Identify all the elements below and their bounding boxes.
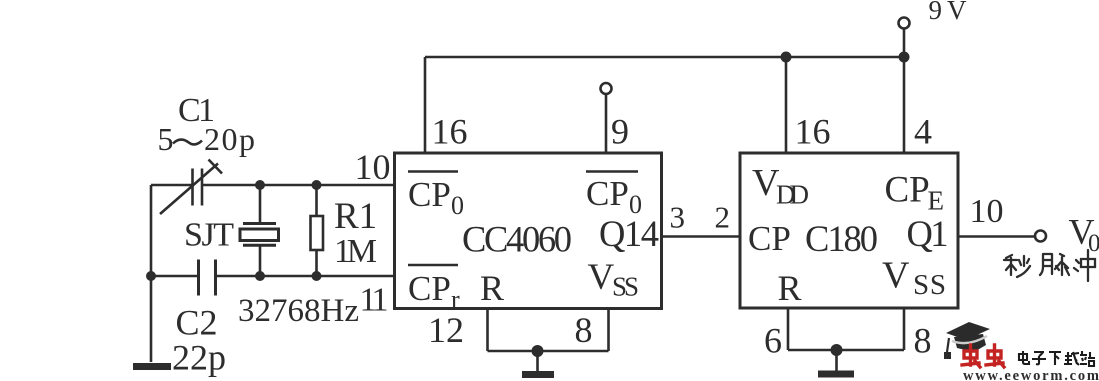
ground (C180) — [818, 350, 854, 374]
char 冲 — [1074, 250, 1095, 281]
IC U1 CC4060 box — [395, 153, 662, 309]
capacitor C1 trimmer arrow — [160, 164, 218, 215]
junction dot C180 ground — [831, 344, 843, 356]
wire 9V stem — [903, 29, 906, 57]
resistor R1 — [311, 185, 324, 276]
ground (CC4060) — [522, 351, 554, 375]
ground (left) — [133, 363, 171, 370]
junction dot top rail / R1 — [312, 180, 322, 190]
svg-text:6: 6 — [764, 321, 782, 361]
crystal SJT — [240, 185, 279, 276]
logo graduation cap board — [946, 322, 990, 340]
label VDD — [752, 162, 809, 210]
wire CC4060 ground link — [488, 350, 609, 353]
logo 电子下载站 hand-drawn — [1019, 351, 1095, 366]
svg-text:SS: SS — [913, 269, 946, 301]
svg-text:0: 0 — [451, 191, 464, 220]
svg-text:SJT: SJT — [184, 217, 234, 254]
wire C180 pin 8 — [903, 308, 906, 350]
wire CC4060 pin 12 — [486, 309, 489, 352]
char 脉 — [1040, 254, 1069, 275]
svg-text:20p: 20p — [204, 121, 255, 157]
svg-text:CP: CP — [408, 269, 451, 308]
svg-text:8: 8 — [914, 321, 932, 361]
svg-text:12: 12 — [428, 310, 464, 350]
logo 虫 #2 — [986, 345, 1004, 367]
logo tassel — [947, 338, 949, 352]
svg-text:R: R — [778, 268, 802, 308]
watermark logo eeworm — [944, 322, 1099, 381]
svg-text:CP: CP — [586, 174, 629, 213]
logo 虫 #1 — [962, 345, 980, 367]
svg-text:9: 9 — [611, 112, 629, 152]
label CP0bar top-left of CC4060 — [408, 172, 464, 221]
svg-text:16: 16 — [432, 112, 468, 152]
wire oscillator bottom rail — [151, 275, 395, 278]
svg-text:SS: SS — [612, 272, 639, 302]
svg-text:Q14: Q14 — [599, 213, 659, 254]
svg-text:9V: 9V — [929, 0, 968, 25]
logo graduation cap base — [954, 334, 986, 352]
char 秒 — [1004, 255, 1030, 277]
wire C180 pin 16 — [785, 57, 788, 152]
junction dot bottom rail left — [146, 271, 156, 281]
svg-text:16: 16 — [795, 112, 831, 152]
label V0 — [1069, 212, 1099, 258]
label 秒脉冲 (second pulse) hand-drawn — [1004, 250, 1095, 281]
svg-text:V: V — [588, 257, 615, 298]
junction dot bottom rail / crystal — [255, 271, 265, 281]
terminal pin 9 open circle — [601, 83, 612, 94]
svg-text:E: E — [928, 186, 945, 216]
svg-text:32768Hz: 32768Hz — [238, 293, 359, 329]
wire CC4060 pin 8 — [607, 309, 610, 352]
svg-text:Q1: Q1 — [907, 213, 949, 254]
junction dot CC4060 ground — [532, 345, 544, 357]
capacitor C1 (variable) plates — [193, 169, 203, 206]
svg-text:CP: CP — [885, 170, 930, 211]
svg-text:C2: C2 — [176, 303, 218, 343]
label CPE — [885, 170, 945, 216]
svg-text:0: 0 — [1088, 230, 1099, 257]
wire CC4060 pin 16 — [424, 57, 427, 152]
svg-text:8: 8 — [575, 310, 593, 350]
wire C180 pin 6 — [787, 308, 790, 350]
label VSS (CC4060) — [588, 257, 640, 302]
wire oscillator top rail — [151, 184, 395, 187]
junction dot top rail / crystal — [255, 180, 265, 190]
wire Q14 to CP — [662, 235, 741, 238]
wire Q1 output — [958, 235, 1035, 238]
svg-text:V: V — [882, 255, 910, 297]
wire top supply rail — [425, 56, 904, 59]
svg-text:DD: DD — [776, 180, 809, 210]
svg-text:11: 11 — [360, 282, 389, 319]
terminal output open circle — [1035, 231, 1046, 242]
svg-text:1M: 1M — [334, 233, 377, 270]
svg-text:CC4060: CC4060 — [462, 219, 572, 260]
svg-text:3: 3 — [670, 200, 686, 235]
svg-text:C180: C180 — [805, 218, 878, 259]
capacitor C2 plates — [199, 260, 216, 296]
wire C180 ground link — [788, 349, 904, 352]
IC U2 C180 box — [740, 153, 958, 308]
svg-text:4: 4 — [914, 112, 932, 152]
label VSS (C180) — [882, 255, 946, 302]
svg-text:5: 5 — [158, 121, 174, 157]
label CP0bar top-right of CC4060 — [586, 172, 642, 220]
svg-text:CP: CP — [408, 175, 451, 214]
svg-text:R1: R1 — [334, 196, 377, 237]
logo cap highlight stripe — [952, 336, 987, 343]
svg-text:CP: CP — [748, 219, 791, 258]
node left vertical (grounded side) — [150, 185, 153, 362]
junction dot at C180 pin16 branch — [781, 52, 792, 63]
label CPrbar bottom-left of CC4060 — [408, 265, 460, 314]
svg-text:10: 10 — [355, 147, 391, 187]
wire CC4060 pin 9 — [605, 94, 608, 152]
svg-text:10: 10 — [970, 193, 1004, 230]
svg-text:R: R — [480, 268, 504, 308]
svg-text:22p: 22p — [172, 338, 226, 378]
terminal 9V — [899, 18, 910, 29]
junction dot bottom rail / R1 — [312, 271, 322, 281]
junction dot at 9V branch — [899, 52, 910, 63]
svg-text:www.eeworm.com: www.eeworm.com — [963, 368, 1099, 381]
wire C180 pin 4 — [903, 57, 906, 152]
svg-text:2: 2 — [715, 200, 731, 235]
